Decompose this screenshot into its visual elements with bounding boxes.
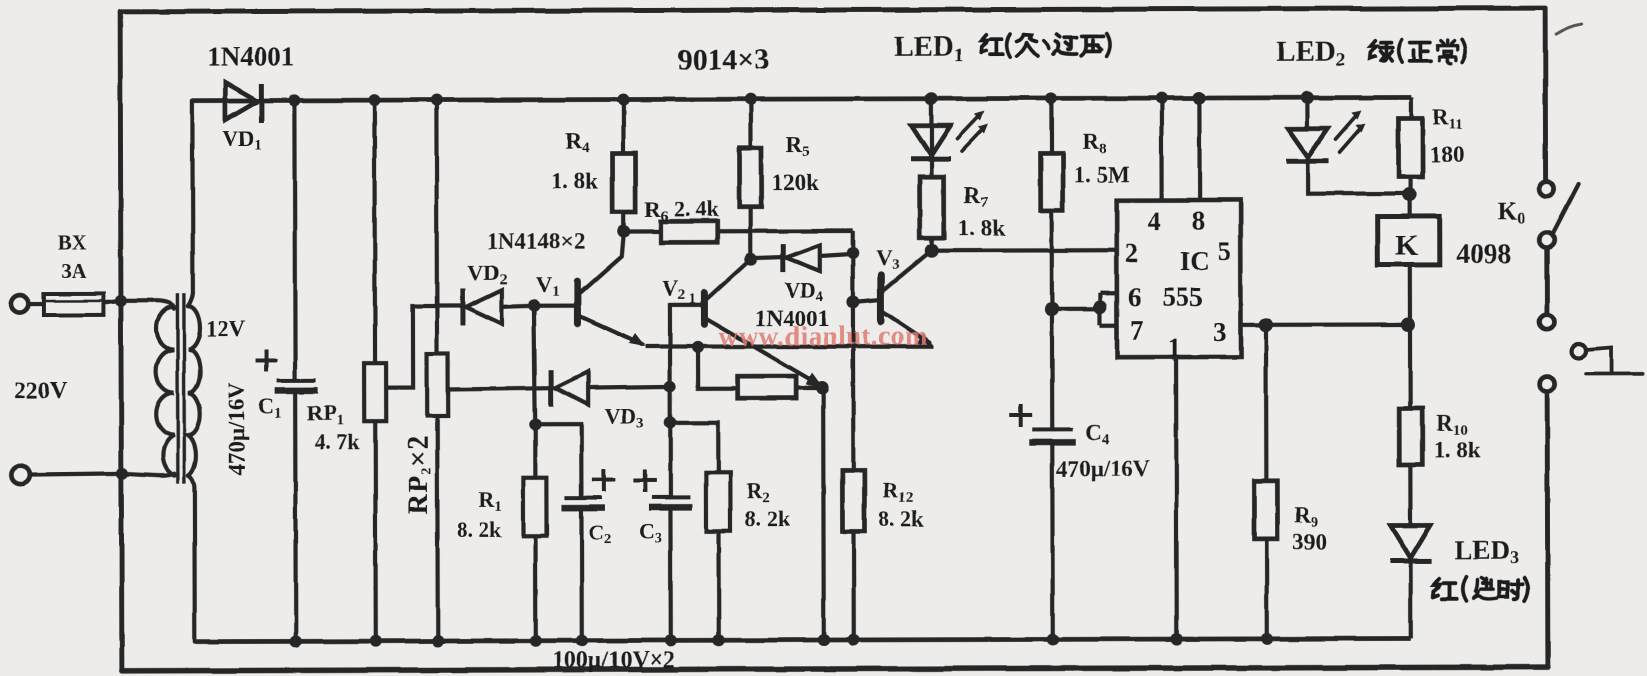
transformer secondary winding	[187, 101, 200, 642]
node: VD4 anode	[847, 247, 859, 259]
wire node down to C3/R2	[668, 386, 672, 422]
capacitor C2	[535, 425, 581, 497]
LED2 arrows	[1335, 111, 1365, 153]
capacitor C1 electrolytic	[292, 100, 297, 379]
capacitor C4 electrolytic	[1032, 427, 1073, 431]
node: ground R1	[530, 635, 542, 647]
svg-text:8. 2k: 8. 2k	[744, 506, 790, 531]
transformer T primary winding	[121, 301, 174, 476]
capacitor C3	[668, 422, 672, 496]
wire: right border lower segment	[1545, 392, 1551, 667]
node: ground RP1	[370, 635, 382, 647]
wire V2 emitter node to ground	[821, 388, 826, 640]
node: ground R12	[848, 634, 860, 646]
pin 1 wire	[1174, 357, 1179, 639]
node: R8/C4/pin6-7	[1045, 302, 1059, 316]
wire V1 base node down to R1/C2 node	[534, 306, 535, 425]
transistor V1 9014	[534, 234, 645, 346]
wire node to pin6/7 stubs	[1052, 293, 1117, 325]
svg-text:1. 8k: 1. 8k	[958, 216, 1006, 241]
resistor R7 1.8k	[920, 177, 944, 238]
svg-text:9014×3: 9014×3	[677, 43, 769, 76]
svg-text:8. 2k: 8. 2k	[878, 506, 924, 531]
svg-text:BX: BX	[58, 231, 87, 255]
node: rail RP2	[430, 94, 442, 106]
terminal circle bottom	[11, 466, 29, 484]
node: R4/R6/V1 collector	[617, 225, 630, 238]
fuse BX 3A	[44, 294, 104, 315]
switch K0 contact circle top	[1539, 182, 1554, 197]
transistor V2 9014	[704, 260, 822, 387]
node: V1 base	[528, 300, 540, 312]
switch K0 lever	[1553, 184, 1579, 234]
resistor R11 180	[1409, 97, 1413, 118]
svg-text:IC: IC	[1180, 246, 1210, 276]
switch relay contact circle third	[1539, 315, 1554, 330]
wire RP1 tap to VD2	[386, 306, 462, 388]
node: rail C1	[288, 94, 300, 106]
svg-text:1. 5M: 1. 5M	[1074, 162, 1131, 187]
node: V3 base tap	[846, 295, 859, 308]
diode VD1 1N4001	[225, 82, 261, 122]
LED2	[1305, 98, 1309, 129]
svg-text:LED1: LED1	[894, 31, 963, 66]
svg-text:3: 3	[1213, 317, 1227, 347]
resistor R5 120k	[748, 99, 752, 148]
wire emitter bus V1-V3	[645, 346, 933, 348]
wire pin3 to R10	[1266, 322, 1408, 327]
wire: main +V top rail	[192, 97, 1411, 100]
wire: right border between K0 contacts	[1544, 248, 1549, 314]
LED1	[929, 99, 933, 177]
node: ground pin1	[1171, 633, 1183, 645]
potentiometer RP1 4.7k	[372, 100, 377, 363]
node: rail R8	[1045, 92, 1057, 104]
wire fuse to node	[104, 301, 121, 303]
node: ground 823	[818, 634, 830, 646]
svg-text:www.dianlut.com: www.dianlut.com	[719, 321, 928, 352]
relay K coil	[1408, 194, 1412, 216]
svg-text:5: 5	[1218, 236, 1232, 266]
node: R1/C2	[529, 419, 541, 431]
node: rail RP1	[368, 94, 380, 106]
terminal circle top (mains input)	[11, 295, 29, 313]
LED3	[1390, 525, 1430, 558]
node: ground R9	[1261, 633, 1273, 645]
relay moving contact bar	[1586, 372, 1643, 376]
node: pin3/R9	[1259, 318, 1273, 332]
svg-text:555: 555	[1162, 282, 1203, 312]
diode VD4 1N4001	[751, 244, 853, 272]
resistor R12 8.2k	[842, 470, 864, 531]
svg-text:1: 1	[1168, 332, 1182, 362]
node: ground C3	[665, 634, 677, 646]
node: rail pin4	[1155, 92, 1167, 104]
resistor R3 horizontal	[737, 376, 796, 398]
label red(delay) hanzi	[1433, 577, 1528, 601]
LED1 arrows	[957, 111, 988, 152]
pin 3 wire	[1241, 323, 1266, 327]
svg-text:R6 2. 4k: R6 2. 4k	[645, 196, 720, 224]
resistor R9 390	[1264, 325, 1269, 481]
relay moving contact hook wire	[1586, 348, 1611, 372]
node: emitter bus junction	[692, 341, 704, 353]
svg-text:470μ/16V: 470μ/16V	[1056, 456, 1150, 481]
pin 8 wire	[1197, 98, 1201, 200]
node: ground C1	[290, 635, 302, 647]
svg-text:120k: 120k	[772, 170, 820, 195]
wire: outer frame bottom border	[122, 667, 1548, 671]
resistor R8 1.5M	[1049, 98, 1053, 153]
node: rail R5	[744, 93, 756, 105]
node: VD3 / V2 base	[664, 380, 676, 392]
node: ground C2	[576, 635, 588, 647]
node: pin6/7 stub	[1093, 300, 1107, 314]
wire terminal to fuse	[29, 302, 45, 306]
svg-text:LED3: LED3	[1455, 535, 1520, 567]
relay moving contact circle	[1572, 344, 1586, 358]
svg-text:LED2: LED2	[1276, 36, 1345, 71]
node: rail pin8	[1193, 91, 1206, 104]
resistor R10 1.8k	[1408, 324, 1412, 408]
svg-text:7: 7	[1130, 315, 1144, 345]
transistor V3 9014	[853, 253, 933, 347]
diode VD3 1N4148	[551, 369, 670, 406]
svg-text:4. 7k: 4. 7k	[314, 429, 360, 454]
resistor R6 2.4k horizontal	[624, 229, 661, 233]
svg-text:1N4148×2: 1N4148×2	[487, 229, 586, 254]
node: R10/relay	[1401, 317, 1415, 331]
svg-text:1N4001: 1N4001	[207, 41, 294, 71]
wire R6 corner down to V3 base / R12	[851, 231, 856, 470]
switch K0 contact circle second	[1539, 233, 1554, 248]
node: R7/V3 collector/pin2	[925, 244, 939, 258]
svg-text:4: 4	[1148, 206, 1162, 236]
potentiometer RP2	[434, 100, 439, 354]
node: R5/V2 collector/VD4	[744, 253, 757, 266]
node: rail LED2	[1301, 91, 1314, 104]
wire node to R3	[698, 347, 737, 388]
diode VD2 1N4148	[463, 289, 534, 325]
wire RP2 tap to VD3	[448, 388, 549, 389]
wire terminal2 to node	[29, 474, 122, 475]
node: ground R2	[713, 634, 725, 646]
transformer core lines	[176, 294, 180, 484]
node: R3/V2 emitter	[816, 381, 829, 394]
wire V2 base vertical	[670, 305, 701, 386]
svg-text:1. 8k: 1. 8k	[1433, 437, 1481, 462]
svg-text:180: 180	[1429, 142, 1464, 167]
node: terminal2 to frame	[116, 468, 128, 480]
node: C3/R2	[664, 416, 676, 428]
stray pen mark top right	[1556, 24, 1582, 34]
label green(normal) hanzi	[1370, 39, 1466, 64]
switch relay contact circle fourth	[1540, 377, 1555, 392]
node: rail R4	[617, 94, 629, 106]
svg-text:8. 2k: 8. 2k	[456, 517, 502, 542]
resistor R1 8.2k	[533, 425, 537, 478]
svg-text:1. 8k: 1. 8k	[551, 169, 599, 194]
svg-text:470μ/16V: 470μ/16V	[224, 382, 249, 476]
op-amp/timer IC 555 box	[1117, 200, 1241, 357]
node: fuse to frame	[115, 295, 127, 307]
pin 4 wire	[1159, 98, 1163, 200]
wire pin2	[932, 248, 1117, 253]
svg-text:6: 6	[1128, 282, 1142, 312]
node: ground C4	[1047, 633, 1059, 645]
wire: ground rail	[196, 638, 1411, 641]
svg-text:3A: 3A	[61, 259, 88, 283]
svg-text:8: 8	[1192, 205, 1206, 235]
label red(under/over voltage) hanzi	[981, 33, 1110, 56]
wire: right border upper segment to switch K0	[1543, 8, 1548, 181]
wire: outer frame top border	[120, 8, 1545, 12]
node: ground RP2	[432, 635, 444, 647]
svg-text:2: 2	[1125, 238, 1139, 268]
node: rail LED1	[925, 92, 938, 105]
resistor R4 1.8k	[621, 100, 625, 154]
svg-text:100μ/10V×2: 100μ/10V×2	[552, 647, 675, 673]
resistor R2 8.2k	[670, 422, 718, 472]
svg-text:4098: 4098	[1456, 239, 1512, 270]
wire: outer frame left border	[120, 12, 122, 671]
svg-text:220V: 220V	[14, 378, 68, 404]
svg-text:K: K	[1396, 229, 1419, 261]
node: R11/LED2/relay top	[1403, 187, 1417, 201]
svg-text:390: 390	[1293, 530, 1328, 555]
svg-text:12V: 12V	[206, 317, 246, 342]
